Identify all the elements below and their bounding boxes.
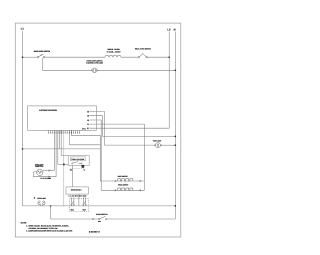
wire ignitor A feed vertical (99, 135, 101, 181)
wire oven light row (104, 144, 155, 146)
svg-text:TOD CLOCK: TOD CLOCK (71, 158, 85, 161)
IC U1 electronic oven control box (28, 106, 97, 130)
connector P1 comb pins (48, 130, 79, 133)
lamp oven light (right) (155, 143, 161, 148)
switch spark B (82, 197, 84, 204)
svg-text:BAKE OVEN SWITCH: BAKE OVEN SWITCH (34, 50, 51, 53)
wire EOC row5 to L2 (90, 127, 169, 129)
wire oven light to N (97, 69, 175, 71)
heater broil element coil (105, 55, 121, 57)
svg-text:BROIL IGNITOR: BROIL IGNITOR (118, 183, 129, 186)
svg-text:NOTE:: NOTE: (21, 222, 27, 225)
wire EOC bus 4 to L1 tap (59, 131, 61, 149)
svg-text:3 W: 3 W (87, 115, 89, 118)
svg-text:OVEN LIGHT: OVEN LIGHT (153, 139, 162, 142)
wire EOC row2 to N (90, 116, 175, 137)
asterisk footnote mark (34, 197, 35, 198)
wire EOC bus 7 jog to ignitor feed (70, 131, 101, 145)
node N rail (174, 32, 176, 220)
wire L1 tap to EOC bus (23, 148, 101, 150)
border frame (15, 23, 181, 237)
wire EOC row1 to oven light (90, 112, 105, 146)
IC spark module box (66, 187, 88, 194)
svg-text:ELECTRONIC OVEN CONTROL: ELECTRONIC OVEN CONTROL (39, 109, 57, 112)
heater bake ignitor coil (118, 179, 133, 181)
pin labels EOC right side (87, 110, 90, 130)
svg-text:BAKE IGNITOR: BAKE IGNITOR (118, 175, 128, 178)
relay spark switch assembly dashed box (70, 198, 89, 211)
svg-text:DOOR SWITCH: DOOR SWITCH (96, 213, 108, 216)
connector P1 pin head dots (48, 132, 80, 135)
wire clock NO terminal to spark module (71, 165, 73, 187)
node lamp row/door drop junction (50, 205, 51, 206)
svg-text:2. COMPONENTS SHOWN WITH DOOR: 2. COMPONENTS SHOWN WITH DOOR CLOSED & S… (26, 230, 73, 233)
relay clock box (68, 156, 89, 166)
wire EOC bus 1 to motor top (53, 131, 55, 171)
wire EOC bus 3 to clock left (57, 131, 59, 165)
svg-text:N: N (174, 28, 176, 31)
wire motor top (43, 170, 54, 172)
wire broil element to broil switch (121, 56, 138, 58)
wire EOC bus 6 down to lamp row (63, 131, 65, 206)
node L2/wire1 junction (168, 56, 170, 58)
wire EOC row4 to ignitor right bus (90, 124, 144, 190)
switch spark A (70, 197, 72, 204)
connector chevrons (48, 170, 140, 220)
svg-text:2-SCREW, 2-PIN BASE: 2-SCREW, 2-PIN BASE (86, 62, 104, 65)
wire drop to door switch row (50, 206, 52, 219)
wire EOC bus 8 jog to ignitor feed (71, 131, 100, 136)
node N/light junction (174, 144, 176, 146)
wire bake switch drop to lamp row (43, 58, 92, 70)
wire clock left (58, 163, 68, 165)
switch clock contacts (72, 162, 82, 164)
connector black square left (63, 164, 65, 166)
wire EOC row3 to ignitor B (90, 120, 101, 190)
wire motor bottom loop (33, 172, 56, 177)
svg-text:GY-GRAY, OR-ORANGE, Y-YELLOW: GY-GRAY, OR-ORANGE, Y-YELLOW (29, 227, 58, 230)
node L2 rail (168, 32, 170, 129)
svg-text:BROIL OVEN SWITCH: BROIL OVEN SWITCH (135, 47, 152, 50)
svg-text:OVEN LAMP: OVEN LAMP (37, 197, 46, 200)
switch S1 bake oven switch (37, 54, 45, 58)
node L1/tap junction (22, 148, 24, 150)
wire lamp row L1 to N (23, 205, 176, 207)
wire EOC bus 2 to motor bottom (55, 131, 57, 177)
node N/row2 junction (174, 136, 176, 138)
wire L1 to bake switch (23, 56, 38, 58)
wire bake ignitor row (100, 180, 144, 182)
lamp oven light (top) (92, 68, 98, 73)
node N/lamp row junction (174, 205, 176, 207)
lamp door light (38, 201, 46, 206)
wire EOC bus 5 to clock top (61, 131, 68, 156)
wire bake switch to broil element (45, 56, 105, 58)
switch S2 broil oven switch (138, 53, 147, 58)
svg-text:5-51057-2: 5-51057-2 (89, 230, 100, 233)
svg-text:4 BK: 4 BK (87, 110, 90, 113)
wire clock dashed bottom (70, 168, 84, 170)
connector black square right (C terminal) (82, 165, 85, 168)
node L1 rail (22, 31, 24, 206)
wire broil ignitor row (101, 189, 144, 191)
svg-text:SWITCH: SWITCH (35, 165, 44, 168)
switch door switch (99, 216, 107, 219)
wire spark module center pin to lamp row (78, 194, 80, 206)
heater broil ignitor coil (118, 188, 133, 190)
wire broil switch to L2 (147, 56, 169, 58)
wire door switch row (51, 218, 99, 220)
motor oven light switch assembly (37, 169, 43, 175)
node N/wire2 junction (174, 69, 176, 71)
svg-text:SPARK MODULE: SPARK MODULE (71, 189, 82, 192)
svg-text:2 COIL, 240V: 2 COIL, 240V (107, 50, 122, 53)
node L1/wire1 junction (22, 56, 24, 58)
svg-text:P-2 CONN: P-2 CONN (41, 177, 52, 180)
